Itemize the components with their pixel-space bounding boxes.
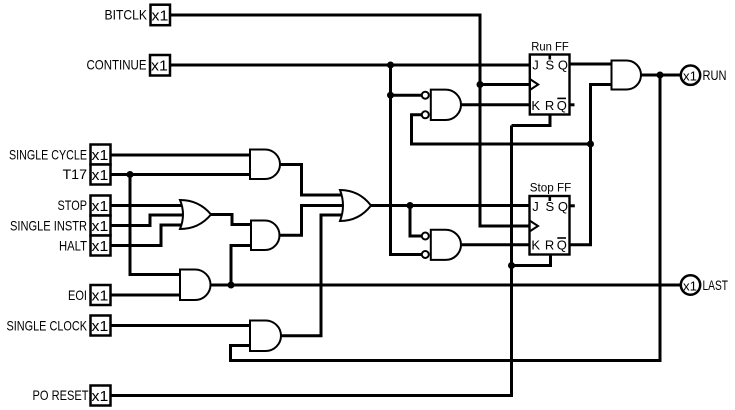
wire A2 output to O2 input2 <box>279 206 347 236</box>
junction CONTINUE branch <box>387 62 394 69</box>
wire Stop FF Qbar up to A5 input2 <box>570 85 614 245</box>
wire NAND1 output to Run FF K <box>460 103 530 106</box>
wire clock rail to Run FF clock <box>480 83 530 86</box>
flip-flop U1 Run FF <box>530 40 570 115</box>
wire SINGLE CYCLE to A1 <box>109 154 253 157</box>
input bubble N1 pin1 <box>422 92 429 99</box>
svg-text:CONTINUE: CONTINUE <box>87 57 147 73</box>
svg-text:SINGLE INSTR: SINGLE INSTR <box>10 217 87 233</box>
wire Run FF R down <box>512 113 551 126</box>
input pin box SINGLE CYCLE <box>91 145 111 165</box>
wire A5 output to RUN <box>640 74 681 77</box>
wire O2 output to Stop FF J <box>370 204 530 207</box>
junction Stop Qbar branch <box>587 141 594 148</box>
svg-text:x1: x1 <box>151 58 168 75</box>
wire T17 branch down to A3 <box>130 175 182 275</box>
svg-text:x1: x1 <box>92 147 109 164</box>
svg-text:EOI: EOI <box>68 287 87 303</box>
wire SINGLE INSTR to O1 <box>109 215 187 226</box>
svg-text:LAST: LAST <box>703 277 729 293</box>
svg-text:x1: x1 <box>683 69 697 84</box>
wire STOP to O1 <box>109 204 187 207</box>
svg-text:R: R <box>545 238 554 253</box>
svg-text:x1: x1 <box>92 388 109 405</box>
wire branch down to NAND2 top bubble <box>410 206 422 237</box>
or-gate O1 (STOP, SINGLE INSTR, HALT) <box>180 200 211 229</box>
nand-gate N2 (inverted-input AND to Stop K) <box>431 230 461 260</box>
input pin box CONTINUE <box>150 55 170 76</box>
svg-text:Q: Q <box>558 57 568 72</box>
wire A3 output to LAST <box>210 284 682 287</box>
junction T17 branch <box>127 171 134 178</box>
wire Run FF Qbar stub <box>570 103 575 106</box>
input pin box HALT <box>91 236 111 256</box>
wire Run FF Q to A5 input1 <box>570 63 614 66</box>
wire EOI to A3 <box>109 294 183 297</box>
and-gate A1 (SINGLE CYCLE, T17) <box>250 150 280 180</box>
svg-text:Run FF: Run FF <box>531 40 569 54</box>
wire CONTINUE branch to NAND1 upper bubble <box>391 94 422 97</box>
junction A3 output branch <box>228 282 235 289</box>
svg-text:BITCLK: BITCLK <box>105 7 148 23</box>
wire RUN feedback to A4 input2 <box>231 75 661 361</box>
junction NAND1 bubble feed <box>387 92 394 99</box>
output pin circle LAST <box>681 275 700 294</box>
wire NAND2 output to Stop FF K <box>460 243 530 246</box>
svg-text:x1: x1 <box>92 318 109 335</box>
wire A4 output to O2 input3 <box>280 215 346 336</box>
nand-gate N1 (inverted-input AND to Run K) <box>431 90 461 120</box>
and-gate A3 (EOI) <box>180 270 210 301</box>
svg-text:Q: Q <box>557 238 567 253</box>
wire HALT to O1 <box>109 225 187 246</box>
svg-text:R: R <box>545 98 554 113</box>
wire CONTINUE to Run FF J <box>168 64 530 67</box>
input pin box T17 <box>91 165 111 185</box>
svg-text:K: K <box>531 98 540 113</box>
svg-text:SINGLE CYCLE: SINGLE CYCLE <box>9 147 87 163</box>
svg-text:x1: x1 <box>683 278 697 293</box>
wire Stop FF R down <box>512 253 551 266</box>
input pin box STOP <box>91 196 111 216</box>
svg-text:S: S <box>545 199 554 214</box>
svg-text:HALT: HALT <box>59 237 87 253</box>
input pin box SINGLE INSTR <box>91 216 111 236</box>
wire branch Stop Qbar to NAND1 lower bubble <box>412 115 591 144</box>
wire O1 output to A2 input1 <box>210 215 253 225</box>
svg-text:x1: x1 <box>92 198 109 215</box>
svg-text:PO RESET: PO RESET <box>33 387 89 403</box>
input bubble N1 pin2 <box>422 111 429 118</box>
svg-text:K: K <box>531 238 540 253</box>
svg-text:SINGLE CLOCK: SINGLE CLOCK <box>7 317 88 333</box>
svg-text:x1: x1 <box>92 167 109 184</box>
input pin box EOI <box>91 285 111 305</box>
input bubble N2 pin1 <box>422 233 429 240</box>
flip-flop U2 Stop FF <box>530 180 572 254</box>
svg-text:x1: x1 <box>92 238 109 255</box>
svg-text:STOP: STOP <box>58 197 88 213</box>
wire SINGLE CLOCK to A4 <box>109 324 252 327</box>
and-gate A4 (SINGLE CLOCK) <box>250 321 281 352</box>
junction BITCLK clock feed <box>477 81 484 88</box>
svg-text:T17: T17 <box>63 166 88 182</box>
svg-text:x1: x1 <box>92 218 109 235</box>
junction reset rail <box>508 262 515 269</box>
svg-text:RUN: RUN <box>703 67 727 83</box>
wire A1 output to O2 input1 <box>279 165 346 196</box>
wire node branch up to A2 input2 <box>231 246 253 286</box>
svg-text:x1: x1 <box>152 7 169 24</box>
input pin box SINGLE CLOCK <box>91 316 111 336</box>
svg-text:J: J <box>532 199 539 214</box>
and-gate A5 (RUN output) <box>612 61 642 90</box>
input pin box PO RESET <box>91 386 111 406</box>
wire CONTINUE branch down to NAND2 lower bubble <box>391 65 422 255</box>
svg-text:J: J <box>532 57 539 72</box>
junction O2 output branch <box>407 202 414 209</box>
svg-text:S: S <box>545 57 554 72</box>
wire BITCLK to clock rail <box>170 15 530 226</box>
svg-text:Stop FF: Stop FF <box>530 180 572 194</box>
wire Stop FF Q stub <box>570 204 575 207</box>
input bubble N2 pin2 <box>422 251 429 258</box>
and-gate A2 <box>251 221 279 251</box>
junction RUN feedback <box>657 72 664 79</box>
output pin circle RUN <box>681 66 700 85</box>
wire T17 to A1 <box>109 173 253 176</box>
input pin box BITCLK <box>151 5 171 26</box>
svg-text:Q: Q <box>557 98 567 113</box>
svg-text:Q: Q <box>558 199 568 214</box>
svg-text:x1: x1 <box>92 288 109 305</box>
wire PO RESET to reset rail <box>109 126 512 396</box>
or-gate O2 (3-input) <box>340 190 371 221</box>
